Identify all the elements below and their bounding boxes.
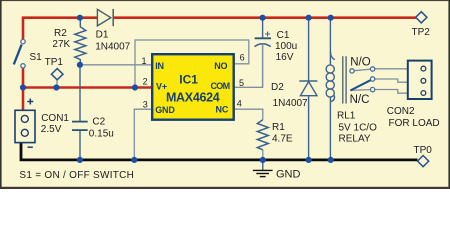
- svg-text:1N4007: 1N4007: [273, 98, 308, 109]
- svg-text:FOR LOAD: FOR LOAD: [389, 118, 440, 129]
- svg-text:C2: C2: [92, 117, 105, 128]
- svg-text:2.5V: 2.5V: [41, 124, 62, 135]
- svg-text:RL1: RL1: [337, 110, 356, 121]
- svg-text:0.15u: 0.15u: [89, 129, 114, 140]
- svg-text:S1 = ON / OFF SWITCH: S1 = ON / OFF SWITCH: [19, 170, 134, 181]
- svg-text:NC: NC: [215, 105, 228, 115]
- svg-text:TP1: TP1: [45, 57, 64, 68]
- svg-text:MAX4624: MAX4624: [166, 91, 220, 105]
- svg-text:S1: S1: [30, 52, 43, 63]
- svg-text:4.7E: 4.7E: [272, 134, 293, 145]
- svg-text:5V 1C/O: 5V 1C/O: [339, 123, 378, 134]
- svg-text:D1: D1: [96, 29, 109, 40]
- svg-text:CON2: CON2: [387, 106, 415, 117]
- svg-text:100u: 100u: [275, 41, 297, 52]
- svg-text:4: 4: [237, 99, 242, 109]
- svg-text:GND: GND: [276, 168, 301, 180]
- svg-text:NO: NO: [214, 61, 227, 71]
- svg-text:C1: C1: [277, 30, 290, 41]
- svg-text:5: 5: [239, 78, 244, 88]
- svg-text:IN: IN: [155, 61, 164, 71]
- svg-text:3: 3: [143, 99, 148, 109]
- svg-text:IC1: IC1: [179, 73, 198, 87]
- svg-text:6: 6: [240, 52, 245, 62]
- svg-text:RELAY: RELAY: [339, 134, 371, 145]
- svg-text:1N4007: 1N4007: [95, 41, 130, 52]
- svg-text:TP2: TP2: [412, 27, 431, 38]
- svg-text:COM: COM: [210, 81, 229, 91]
- svg-text:16V: 16V: [276, 52, 294, 63]
- svg-text:D2: D2: [271, 82, 284, 93]
- svg-text:27K: 27K: [52, 39, 70, 50]
- svg-text:GND: GND: [155, 105, 175, 115]
- svg-text:N/O: N/O: [350, 56, 371, 68]
- svg-text:2: 2: [143, 76, 148, 86]
- svg-text:CON1: CON1: [41, 113, 69, 124]
- svg-text:TP0: TP0: [414, 145, 433, 156]
- svg-text:R1: R1: [272, 122, 285, 133]
- svg-text:N/C: N/C: [350, 94, 370, 106]
- svg-text:R2: R2: [54, 28, 67, 39]
- svg-text:1: 1: [142, 56, 147, 66]
